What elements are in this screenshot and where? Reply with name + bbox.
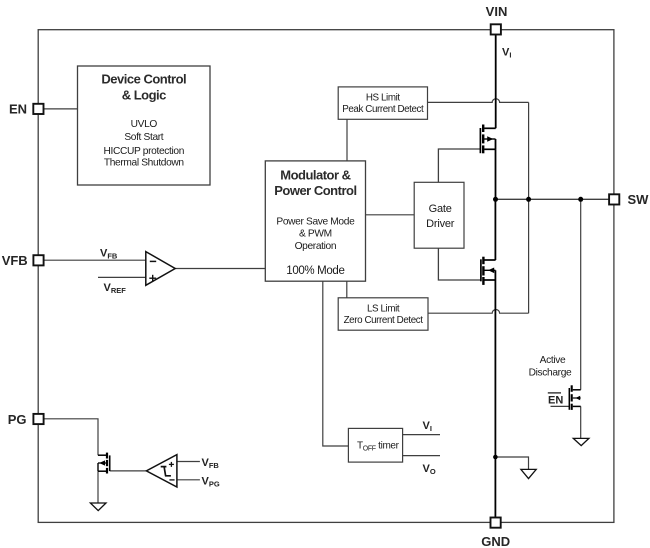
svg-text:Discharge: Discharge: [529, 368, 572, 379]
wire HS Limit sense with hop over VIN rail: [428, 99, 529, 103]
transistor HS FET (high side): [480, 125, 495, 154]
transistor PG FET (mirrored, gate right): [98, 453, 110, 474]
wire comparator output to Modulator: [175, 268, 265, 270]
svg-text:EN: EN: [9, 102, 27, 117]
svg-text:Active: Active: [540, 355, 566, 366]
svg-text:Operation: Operation: [295, 241, 337, 252]
wire LS Limit sense with hop over rail: [428, 310, 529, 314]
wire Modulator to Gate Driver: [366, 214, 415, 216]
box Toff timer: [348, 428, 402, 462]
svg-text:Power Save Mode: Power Save Mode: [276, 216, 355, 227]
svg-text:VIN: VIN: [486, 4, 508, 19]
wire PG FET source to ground: [97, 471, 99, 503]
wire VREF stub to comparator plus input: [98, 276, 146, 278]
pin EN: [33, 104, 43, 114]
svg-text:Modulator &: Modulator &: [280, 167, 350, 182]
pin SW: [609, 194, 619, 204]
wire PG pin to PG FET drain: [44, 419, 98, 455]
wire active discharge source to ground: [580, 406, 582, 438]
ground symbol main GND branch: [521, 469, 536, 478]
svg-text:Device Control: Device Control: [101, 71, 186, 86]
node SW junction dot at rail: [493, 197, 498, 202]
box Device Control & Logic: [78, 66, 211, 185]
wire gate driver to LS gate: [438, 248, 481, 280]
svg-text:Peak Current Detect: Peak Current Detect: [342, 104, 424, 115]
op-amp PG comparator with hysteresis: [146, 455, 177, 487]
wire SW node to LS drain: [494, 199, 496, 260]
op-amp comparator VFB/VREF: [146, 252, 175, 286]
transistor active discharge FET: [569, 385, 580, 410]
wire LS source to GND pin: [494, 280, 496, 518]
wire HS Limit box to Modulator top: [346, 119, 348, 161]
node GND junction dot: [493, 455, 498, 460]
ground symbol PG: [90, 503, 106, 511]
wire PG comparator input VFB stub: [177, 461, 200, 463]
ground symbol active discharge: [573, 438, 589, 445]
wire SW node row: [496, 198, 610, 200]
svg-text:VFB: VFB: [2, 253, 28, 268]
box Gate Driver: [414, 182, 464, 248]
svg-text:Driver: Driver: [426, 218, 455, 230]
wire HS source to SW node: [495, 149, 497, 199]
svg-text:SW: SW: [628, 192, 650, 207]
wire VFB pin to comparator minus input: [44, 259, 146, 261]
wire EN label to active discharge gate: [551, 405, 570, 407]
wire PG FET body-source tie: [97, 463, 99, 471]
svg-text:HS Limit: HS Limit: [366, 93, 400, 104]
wire PG comparator input VPG stub: [177, 479, 200, 481]
svg-text:Power Control: Power Control: [274, 183, 356, 198]
box LS Limit Zero Current Detect: [338, 298, 428, 330]
transistor LS FET (low side): [481, 257, 496, 285]
svg-text:PG: PG: [8, 412, 27, 427]
outer IC boundary box: [38, 30, 614, 523]
svg-text:LS Limit: LS Limit: [367, 304, 400, 315]
pin VFB: [33, 255, 43, 265]
svg-text:EN: EN: [548, 395, 563, 407]
node SW junction dot at sense line: [526, 197, 531, 202]
wire LS body to source: [494, 270, 496, 280]
svg-text:& PWM: & PWM: [299, 229, 332, 240]
svg-text:100% Mode: 100% Mode: [286, 265, 344, 277]
wire HS body to source: [495, 139, 497, 149]
wire EN pin to Device Control: [44, 108, 78, 110]
svg-text:Zero Current Detect: Zero Current Detect: [344, 315, 424, 326]
svg-text:& Logic: & Logic: [122, 87, 166, 102]
wire GND branch to ground symbol: [495, 457, 528, 469]
svg-text:UVLO: UVLO: [131, 119, 158, 130]
svg-text:Gate: Gate: [429, 203, 452, 215]
wire current sense vertical to SW node: [528, 102, 530, 313]
wire Toff timer output VI: [403, 434, 440, 436]
svg-text:Soft Start: Soft Start: [124, 132, 163, 143]
svg-text:HICCUP protection: HICCUP protection: [104, 146, 185, 157]
wire Modulator bottom to Toff timer: [323, 281, 349, 446]
wire VIN rail to HS drain: [495, 35, 497, 129]
pin PG: [33, 414, 43, 424]
box Modulator & Power Control: [265, 161, 365, 281]
wire gate driver to HS gate: [438, 149, 480, 182]
pin VIN: [491, 24, 501, 34]
wire PG comparator output to PG FET gate: [110, 470, 147, 472]
wire Modulator bottom to LS Limit top: [346, 281, 348, 298]
wire SW to active discharge drain: [580, 199, 582, 389]
node SW junction dot at discharge branch: [578, 197, 583, 202]
box HS Limit Peak Current Detect: [338, 87, 427, 119]
svg-text:GND: GND: [481, 534, 510, 548]
wire Toff timer output VO: [403, 455, 440, 457]
svg-text:Thermal Shutdown: Thermal Shutdown: [104, 158, 184, 169]
pin GND: [491, 518, 501, 528]
